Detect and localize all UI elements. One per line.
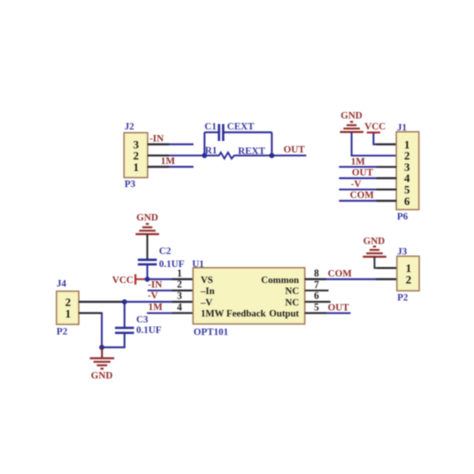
ground GND (above C2) <box>136 213 160 234</box>
wire C1 loop left vertical <box>204 132 206 155</box>
wire U1 pin2 (-IN) <box>148 280 194 291</box>
wire J1 pin3 (1M) <box>339 166 396 168</box>
svg-text:NC: NC <box>285 297 299 308</box>
svg-text:CEXT: CEXT <box>227 122 255 133</box>
capacitor C2 <box>138 260 157 265</box>
wire U1 pin1 (VS) <box>147 268 193 279</box>
wire U1 pin8 (COM) to J3 pin2 <box>305 269 397 280</box>
svg-text:2: 2 <box>133 151 139 163</box>
op-amp IC U1 OPT101 <box>192 259 305 338</box>
svg-text:C2: C2 <box>159 246 171 257</box>
svg-text:J3: J3 <box>397 247 407 258</box>
svg-text:P6: P6 <box>397 211 408 222</box>
ground GND (bottom) <box>90 347 114 381</box>
node C3 junction <box>122 299 127 304</box>
svg-text:3: 3 <box>404 162 410 174</box>
svg-text:5: 5 <box>404 185 410 197</box>
wire J1 pin4 (OUT) <box>339 177 396 179</box>
svg-text:OPT101: OPT101 <box>194 327 229 338</box>
svg-text:1: 1 <box>177 268 182 279</box>
wire C1 loop right vertical <box>271 132 273 155</box>
svg-text:OUT: OUT <box>328 303 350 314</box>
connector J1 (P6) <box>396 122 419 222</box>
svg-text:C1: C1 <box>205 122 217 133</box>
capacitor C3 <box>115 328 134 333</box>
svg-text:3: 3 <box>177 291 182 302</box>
svg-text:Common: Common <box>261 275 300 286</box>
power VCC (mid, at U1 pin1) <box>112 274 147 286</box>
svg-text:P2: P2 <box>57 326 68 337</box>
svg-text:Output: Output <box>269 309 300 320</box>
wire U1 pin5 (OUT) <box>305 303 351 314</box>
svg-text:1: 1 <box>406 263 412 275</box>
svg-text:3: 3 <box>133 139 139 151</box>
svg-text:J4: J4 <box>57 279 67 290</box>
capacitor C1 (CEXT) <box>219 124 223 141</box>
svg-text:J2: J2 <box>124 122 134 133</box>
svg-text:2: 2 <box>65 297 71 309</box>
svg-text:COM: COM <box>328 269 352 280</box>
svg-text:COM: COM <box>350 190 374 201</box>
svg-text:OUT: OUT <box>352 168 374 179</box>
connector J2 (P3) <box>124 122 148 191</box>
wire OUT (top) <box>272 155 307 157</box>
wire C1 loop top left <box>205 131 220 133</box>
wire J4 pin2 to U1 pin3 <box>79 291 193 302</box>
svg-text:VCC: VCC <box>112 275 133 286</box>
wire U1 pin6 (NC) <box>305 291 331 302</box>
svg-text:-V: -V <box>351 179 361 190</box>
wire C1 loop top right <box>223 131 272 133</box>
svg-text:U1: U1 <box>192 259 204 270</box>
svg-text:2: 2 <box>177 280 182 291</box>
svg-text:P3: P3 <box>125 179 136 190</box>
svg-text:-IN: -IN <box>148 280 162 291</box>
wire VCC to J1 pin1 <box>374 133 397 145</box>
wire J2 pin2 to node A <box>148 155 205 157</box>
node VCC junction <box>145 277 150 282</box>
svg-text:NC: NC <box>285 286 299 297</box>
wire J1 pin5 (-V) <box>339 189 396 191</box>
wire GND to C2 <box>146 234 148 260</box>
svg-text:P2: P2 <box>397 292 408 303</box>
connector J3 (P2 right) <box>397 247 419 304</box>
wire GND to J3 pin1 <box>375 257 397 268</box>
wire J2 pin3 (-IN) <box>148 143 194 145</box>
connector J4 (P2 left) <box>57 279 79 338</box>
wire node to C3 <box>124 302 126 328</box>
wire J4 pin1 elbow down <box>79 313 102 347</box>
svg-text:–V: –V <box>200 297 213 308</box>
svg-text:1: 1 <box>133 162 139 174</box>
svg-text:–In: –In <box>200 286 216 297</box>
svg-text:0.1UF: 0.1UF <box>136 325 161 336</box>
svg-text:4: 4 <box>404 173 410 185</box>
svg-text:7: 7 <box>314 280 319 291</box>
svg-text:GND: GND <box>136 213 158 224</box>
wire C3 to ground elbow <box>102 333 125 347</box>
wire C2 to node VCC <box>146 264 148 279</box>
svg-text:VCC: VCC <box>365 122 386 133</box>
svg-text:1MW Feedback: 1MW Feedback <box>201 309 267 320</box>
svg-text:GND: GND <box>341 111 363 122</box>
wire J2 pin1 (1M) <box>148 166 194 168</box>
node GND junction <box>99 345 104 350</box>
svg-text:OUT: OUT <box>284 144 306 155</box>
wire GND to J1 pin2 <box>352 132 397 156</box>
svg-text:REXT: REXT <box>238 146 266 157</box>
wire U1 pin7 (NC) <box>305 280 329 291</box>
ground GND (top right, to J1 pin2) <box>340 111 364 133</box>
svg-text:-IN: -IN <box>150 134 164 145</box>
svg-text:VS: VS <box>201 275 213 286</box>
svg-text:J1: J1 <box>397 122 407 133</box>
svg-text:8: 8 <box>314 269 319 280</box>
svg-text:5: 5 <box>314 303 319 314</box>
svg-text:1: 1 <box>65 308 71 320</box>
node A junction <box>202 153 207 158</box>
ground GND (at J3) <box>363 236 387 257</box>
svg-text:6: 6 <box>314 291 319 302</box>
svg-text:4: 4 <box>177 302 182 313</box>
svg-text:2: 2 <box>406 274 412 286</box>
svg-text:1M: 1M <box>161 156 175 167</box>
wire J1 pin6 (COM) <box>339 200 396 202</box>
svg-text:-V: -V <box>148 290 158 301</box>
svg-text:GND: GND <box>91 371 113 382</box>
svg-text:GND: GND <box>363 236 385 247</box>
svg-text:1M: 1M <box>351 156 365 167</box>
svg-text:2: 2 <box>404 151 410 163</box>
svg-text:6: 6 <box>404 196 410 208</box>
node B junction <box>269 153 274 158</box>
power VCC (top right, to J1 pin1) <box>365 122 386 133</box>
svg-text:1: 1 <box>404 139 410 151</box>
wire U1 pin4 (1M) <box>147 302 193 313</box>
svg-text:1M: 1M <box>148 302 162 313</box>
resistor R1 (REXT) <box>205 152 272 158</box>
